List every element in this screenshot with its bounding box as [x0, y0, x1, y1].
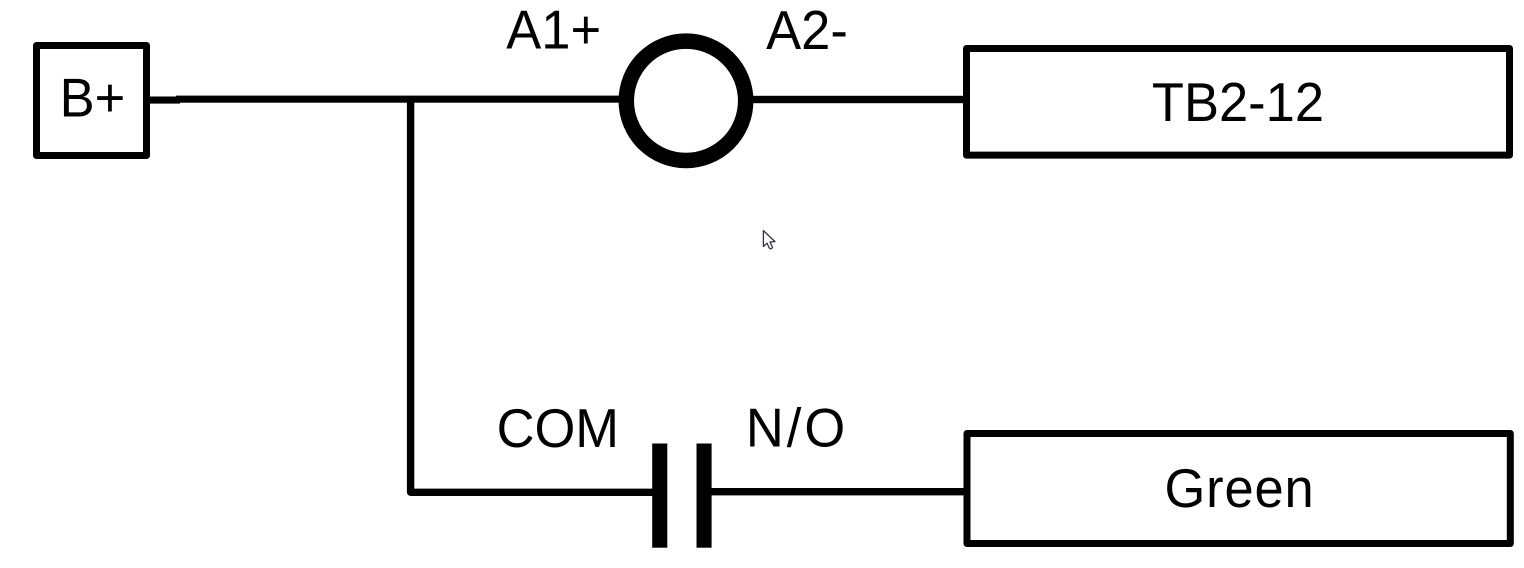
- terminal box Green: [967, 434, 1510, 544]
- contact (N/O) left bar: [652, 444, 667, 548]
- terminal box TB2-12: [967, 49, 1510, 156]
- contact (N/O) right bar: [697, 444, 712, 548]
- svg-text:TB2-12: TB2-12: [1152, 73, 1324, 133]
- svg-text:N/O: N/O: [746, 398, 848, 458]
- mouse cursor: [763, 231, 775, 249]
- svg-text:B+: B+: [60, 69, 126, 129]
- terminal box B+: [37, 46, 147, 156]
- svg-text:Green: Green: [1165, 459, 1315, 519]
- node: junction vertical drop: [411, 97, 653, 493]
- coil (relay coil circle): [626, 41, 745, 160]
- wire: horizontal to coil A1+: [176, 96, 620, 103]
- wire: B+ to junction stub: [150, 97, 180, 104]
- svg-text:A1+: A1+: [506, 1, 601, 61]
- wire: contact N/O side to Green: [711, 488, 965, 495]
- svg-text:A2-: A2-: [766, 1, 848, 61]
- svg-text:COM: COM: [497, 399, 619, 459]
- wire: coil A2- to TB2-12: [752, 96, 964, 103]
